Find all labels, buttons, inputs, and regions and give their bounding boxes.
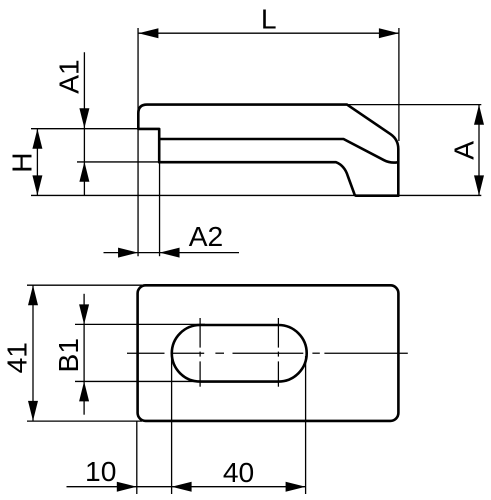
- dimension B1 down arrow: [79, 304, 89, 324]
- svg-text:40: 40: [223, 456, 254, 488]
- dimension A1 upper line: [83, 52, 85, 195]
- dimension 41 down arrow: [28, 401, 38, 421]
- slot horizontal centerline: [127, 352, 408, 354]
- dimension H up arrow: [32, 129, 42, 149]
- dimension H down arrow: [32, 175, 42, 195]
- dimension 40 right arrow: [286, 482, 306, 492]
- dimension A down arrow: [474, 175, 484, 195]
- dimension L right arrow: [379, 28, 399, 38]
- slot left arc centerline tick: [199, 318, 201, 387]
- side view: gooseneck middle edge: [159, 139, 397, 163]
- slot right arc centerline tick: [277, 318, 279, 387]
- svg-text:L: L: [261, 3, 277, 35]
- svg-text:10: 10: [85, 455, 116, 487]
- svg-text:B1: B1: [52, 338, 84, 372]
- extension line top face right: [348, 104, 481, 106]
- dimension A2 line: [104, 252, 240, 254]
- extension line step top: [31, 128, 138, 130]
- extension line bottom face (H and A): [31, 194, 481, 196]
- dimension A line: [478, 105, 480, 196]
- extension line left of L / A2: [137, 28, 139, 256]
- extension line plate bottom: [27, 420, 142, 422]
- extension line right of L: [398, 28, 400, 141]
- plan view: slot: [172, 325, 307, 382]
- extension line plate top: [27, 284, 142, 286]
- svg-text:A1: A1: [52, 59, 84, 93]
- dimension 40 left arrow: [172, 482, 192, 492]
- dimension L left arrow: [138, 28, 158, 38]
- dimension H line: [36, 129, 38, 196]
- dimension 10/40 line: [67, 486, 306, 488]
- dimension L line: [138, 32, 399, 34]
- svg-text:A2: A2: [189, 220, 223, 252]
- dimension A up arrow: [474, 105, 484, 125]
- svg-text:41: 41: [1, 342, 33, 373]
- extension line slot top: [75, 323, 205, 325]
- dimension A2 left outside arrow: [118, 248, 138, 258]
- extension line nose underside: [77, 161, 159, 163]
- dimension B1 up arrow: [79, 381, 89, 401]
- svg-text:A: A: [448, 141, 480, 160]
- extension line nose right edge: [159, 163, 161, 256]
- extension line plate left edge: [136, 422, 138, 495]
- dimension A2 right outside arrow: [160, 248, 180, 258]
- dimension 41 up arrow: [28, 285, 38, 305]
- extension line slot bottom: [75, 380, 205, 382]
- plan view: plate outline: [138, 285, 399, 421]
- dimension A1 up arrow: [79, 162, 89, 182]
- extension line slot left: [171, 358, 173, 494]
- dimension B1 upper line: [83, 294, 85, 415]
- dimension 41 line: [32, 285, 34, 421]
- extension line slot right: [305, 356, 307, 494]
- side view: clamp outer profile: [138, 105, 398, 196]
- dimension A1 down arrow: [79, 108, 89, 128]
- dimension 10 outside arrow: [117, 482, 137, 492]
- svg-text:H: H: [5, 152, 37, 172]
